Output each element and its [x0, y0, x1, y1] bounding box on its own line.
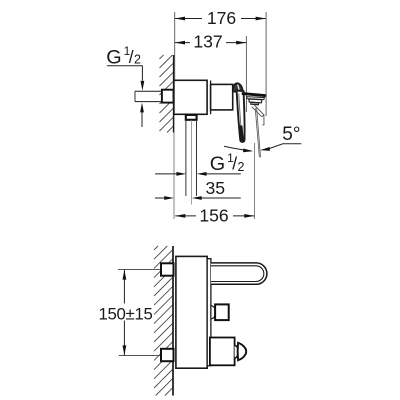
- middle knob stem: [211, 305, 215, 319]
- diverter neck: [235, 345, 238, 358]
- extension line lever tip (156): [253, 143, 255, 219]
- extension line 137: [245, 36, 247, 112]
- svg-text:150±15: 150±15: [98, 304, 152, 323]
- mixer body (side view): [176, 256, 207, 368]
- dimension 35: [155, 178, 241, 200]
- lever hook tab: [251, 103, 259, 105]
- svg-text:176: 176: [207, 8, 237, 28]
- extension line lever arm tip (176): [265, 12, 267, 116]
- G 1/2 arrows at hose: [155, 172, 241, 176]
- svg-text:G: G: [106, 46, 121, 68]
- arrow up to pipe underside: [140, 103, 144, 127]
- cover plate: [207, 259, 211, 366]
- hose centerline: [191, 120, 193, 205]
- dimension 176: [175, 8, 266, 28]
- wall face line (bottom figure): [172, 246, 174, 396]
- vertical hose pipe: [186, 120, 197, 196]
- svg-text:5°: 5°: [282, 124, 300, 145]
- lever arm under plate: [247, 97, 265, 100]
- supply pipe (through wall): [135, 91, 162, 101]
- diverter housing: [210, 338, 235, 366]
- dimension 137: [175, 31, 246, 51]
- hand shower holder loop: [211, 263, 267, 284]
- lever hook: [249, 99, 262, 103]
- svg-text:2: 2: [238, 160, 245, 174]
- lever blade (hanging): [237, 91, 245, 142]
- mixer main body (top view): [174, 80, 207, 114]
- extension line wall face lower (35/156): [173, 133, 175, 220]
- ghost lever hook (5 deg position): [252, 105, 264, 125]
- wall fitting upper (side view): [161, 263, 174, 275]
- dimension 150±15: [98, 270, 154, 356]
- G 1/2 label (upper left): [106, 44, 144, 90]
- lever arm (top bar): [243, 94, 265, 96]
- svg-text:137: 137: [193, 31, 222, 51]
- ring between body and cartridge: [210, 81, 212, 115]
- 5 degree swing arc with arrows: [224, 144, 301, 153]
- cartridge housing: [211, 84, 233, 110]
- diverter knob cap: [238, 343, 247, 361]
- svg-text:156: 156: [199, 205, 229, 225]
- svg-text:G: G: [210, 153, 225, 175]
- G 1/2 label (lower, hose thread): [210, 151, 245, 175]
- hose collar below body: [186, 115, 197, 120]
- wall fitting lower (side view): [161, 349, 174, 361]
- wall (bottom figure) hatched band: [154, 246, 173, 396]
- wall (top figure) hatched band: [160, 55, 174, 133]
- ghost lever tip lines (5 deg): [255, 108, 260, 158]
- lever dome cap: [233, 83, 243, 92]
- extension line bottom (150 dim): [119, 355, 161, 357]
- extension line top (150 dim): [118, 269, 161, 271]
- wall fitting (top figure): [162, 90, 174, 103]
- svg-text:2: 2: [134, 52, 141, 66]
- wall face line (top figure): [173, 55, 175, 133]
- dimension 156: [175, 205, 254, 225]
- middle knob: [215, 304, 229, 320]
- extension line wall face (to dims 176/137): [174, 12, 176, 80]
- svg-text:35: 35: [206, 178, 226, 198]
